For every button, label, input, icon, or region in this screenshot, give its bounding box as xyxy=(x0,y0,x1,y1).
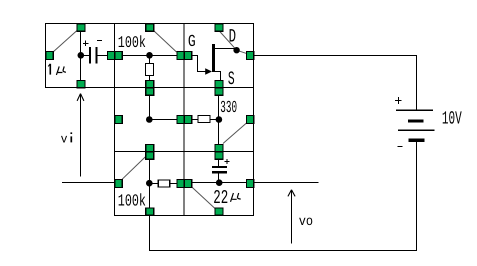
node vi arrowhead xyxy=(77,94,84,101)
wire: cell G horizontal left pad to right pad xyxy=(188,182,250,184)
node pad F top xyxy=(146,152,154,159)
node pad G right xyxy=(247,180,254,188)
wire: cell B diagonal top pad to right pad xyxy=(154,31,177,53)
wire: battery to bottom rail xyxy=(150,142,417,251)
wire: cell F dot to resistor xyxy=(150,183,159,185)
capacitor C1 plate + xyxy=(89,47,91,64)
wire: cell A diagonal top pad to left pad xyxy=(53,31,78,53)
node pad D bottom xyxy=(146,145,154,152)
node pad E bottom xyxy=(215,145,223,152)
label battery polarity - xyxy=(398,146,403,148)
resistor R2 body (330 horizontal) xyxy=(198,116,210,123)
wire: cell B dot down to resistor xyxy=(149,56,151,65)
wire: top rail drain to battery xyxy=(254,56,417,111)
label C1 polarity + xyxy=(83,40,88,46)
wire: cell G top pad to capacitor xyxy=(218,158,220,166)
battery B1 plate long top xyxy=(396,110,433,112)
wire: input rail xyxy=(62,182,115,184)
transistor Q1 gate lead xyxy=(191,56,206,72)
node pad C left xyxy=(185,52,192,60)
node pad D right xyxy=(177,116,184,124)
wire: cell F diagonal top pad to left pad xyxy=(122,157,145,179)
svg-text:22: 22 xyxy=(213,187,228,210)
svg-text:v: v xyxy=(61,132,68,147)
svg-text:vo: vo xyxy=(299,213,313,229)
wire: cell E dot down to bottom pad xyxy=(218,120,220,146)
node vo arrowhead xyxy=(288,190,295,197)
wire: resistor R2 to dot xyxy=(210,119,219,121)
node pad B left xyxy=(115,52,122,60)
node pad D left xyxy=(115,116,122,124)
cell F border (100k bottom cell) xyxy=(115,152,185,216)
transistor Q1 gate arrowhead xyxy=(205,68,212,75)
resistor R1 body (100k vertical) xyxy=(146,64,154,76)
battery B1 plate short 1 xyxy=(408,120,424,123)
wire: cell D dot to right pad xyxy=(150,119,181,121)
node pad C right xyxy=(247,52,254,60)
cell G border (22μ cell) xyxy=(184,152,254,216)
wire: cell C drain dot to right pad xyxy=(237,50,248,54)
battery B1 plate long bottom xyxy=(398,130,435,132)
node pad G bottom xyxy=(215,208,223,215)
cell A border (1μ cap cell) xyxy=(46,24,115,88)
node B junction dot xyxy=(146,52,153,59)
wire: cell B horizontal left pad to right pad xyxy=(118,55,180,57)
node pad C bottom xyxy=(215,81,223,88)
wire: cell D vertical top pad to dot xyxy=(149,94,151,120)
svg-text:G: G xyxy=(188,32,196,52)
capacitor C2 top plate xyxy=(212,166,227,168)
svg-text:100k: 100k xyxy=(118,33,146,52)
node pad A top xyxy=(77,24,85,31)
node pad F right xyxy=(177,180,184,188)
node pad E top xyxy=(215,88,223,95)
wire: C1 plate to right pad xyxy=(98,55,109,57)
transistor Q1 channel bar xyxy=(212,44,215,72)
cell B border (100k top cell) xyxy=(115,24,185,88)
node pad C top xyxy=(215,24,223,31)
label C1 value 1μ xyxy=(49,64,51,75)
wire: cell A vertical top pad to bottom pad xyxy=(80,30,82,81)
wire: resistor R3 to right pad xyxy=(170,183,180,185)
label C1 polarity - xyxy=(97,40,102,42)
wire: cell C diagonal top pad to drain dot xyxy=(219,31,237,51)
node pad G left xyxy=(185,180,192,188)
node E junction dot xyxy=(216,116,223,123)
node pad E left xyxy=(185,116,192,124)
transistor Q1 source lead xyxy=(215,72,221,83)
node pad G top xyxy=(215,152,223,159)
node pad E right xyxy=(247,116,254,124)
node pad A left xyxy=(46,52,53,60)
battery B1 plate short 2 xyxy=(409,139,425,142)
node F junction dot xyxy=(146,180,153,187)
wire: output rail xyxy=(254,182,319,184)
cell E border (330 cell) xyxy=(184,88,254,152)
wire: cell E diagonal bottom pad to right pad xyxy=(223,123,247,144)
capacitor C2 bottom plate xyxy=(212,171,227,174)
cell D border (row2 col2) xyxy=(115,88,185,152)
svg-text:S: S xyxy=(228,68,235,90)
wire: cell E vertical top pad to dot xyxy=(218,94,220,120)
node vo annotation arrow xyxy=(291,190,293,243)
wire: cell G diagonal left pad to bottom pad xyxy=(192,187,215,209)
node G junction dot xyxy=(216,179,223,186)
wire: resistor to bottom pad xyxy=(149,76,151,82)
cell C border (JFET cell) xyxy=(184,24,254,88)
wire: cell E left pad to resistor xyxy=(188,119,198,121)
wire: cell F vertical top pad to bottom pad xyxy=(149,158,151,209)
resistor R3 body (100k horizontal) xyxy=(158,180,170,187)
node pad D top xyxy=(146,88,154,95)
node pad F left xyxy=(115,180,122,188)
svg-text:10V: 10V xyxy=(442,108,462,129)
node pad B bottom xyxy=(146,81,154,88)
node pad A right xyxy=(108,52,115,60)
svg-text:330: 330 xyxy=(220,98,237,118)
svg-text:D: D xyxy=(229,26,237,48)
wire: cell A dot to capacitor plate xyxy=(81,55,90,57)
node pad F bottom xyxy=(146,208,154,215)
label C2 polarity + xyxy=(225,159,230,164)
svg-text:100k: 100k xyxy=(118,191,146,211)
label battery polarity + xyxy=(395,97,401,104)
node A junction dot xyxy=(78,52,85,59)
node pad B right xyxy=(177,52,184,60)
node pad B top xyxy=(146,24,154,31)
node D junction dot xyxy=(146,116,153,123)
node C drain junction dot xyxy=(233,47,239,53)
capacitor C1 plate - xyxy=(95,47,97,64)
node vi annotation arrow xyxy=(80,93,82,176)
wire: capacitor C2 to dot xyxy=(218,174,220,184)
transistor Q1 drain lead xyxy=(215,48,236,50)
node pad A bottom xyxy=(77,81,85,88)
